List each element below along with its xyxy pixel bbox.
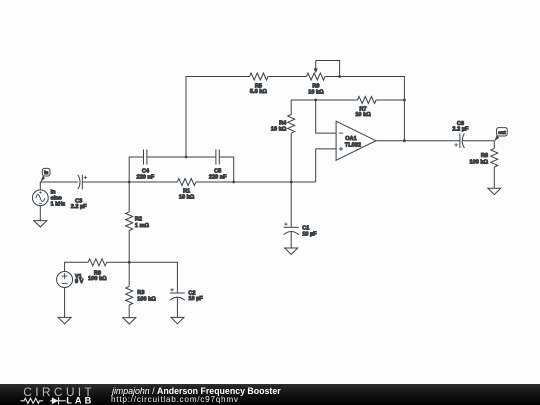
resistor R2 — [126, 182, 150, 262]
resistor R5 — [250, 73, 269, 95]
wire bias node to C2 — [129, 262, 177, 293]
ground (under C1) — [285, 248, 298, 254]
svg-text:LAB: LAB — [66, 396, 94, 405]
svg-text:100 kΩ: 100 kΩ — [137, 296, 156, 302]
wire R5 to R9 — [268, 76, 306, 78]
svg-text:100 kΩ: 100 kΩ — [88, 276, 107, 282]
wire C6 to out node — [462, 140, 494, 142]
svg-text:TL082: TL082 — [345, 142, 361, 148]
op-amp OA1 — [336, 121, 376, 160]
node G junction (output) — [403, 139, 406, 142]
svg-text:R2: R2 — [135, 216, 142, 222]
potentiometer R9 — [306, 61, 341, 96]
svg-text:5.6 kΩ: 5.6 kΩ — [250, 89, 267, 95]
resistor R3 — [126, 262, 157, 317]
resistor R7 — [355, 97, 404, 119]
node in flag — [40, 168, 50, 182]
resistor R1 — [129, 179, 234, 201]
node E junction (inverting input tap) — [314, 99, 317, 102]
wire in to C3 — [40, 181, 78, 183]
voltage source V1 — [57, 262, 89, 317]
capacitor C4 — [137, 150, 155, 181]
svg-text:10 µF: 10 µF — [188, 296, 203, 302]
svg-text:2.2 µF: 2.2 µF — [452, 127, 469, 133]
svg-text:R8: R8 — [481, 153, 488, 159]
node C junction — [232, 181, 235, 184]
ground (under R3) — [123, 318, 136, 324]
wire R9 to right corner, down to output node — [325, 77, 404, 141]
svg-text:9 V: 9 V — [75, 279, 84, 285]
svg-text:OA1: OA1 — [345, 136, 357, 142]
node H junction (bias node) — [128, 261, 131, 264]
capacitor C6 — [452, 121, 469, 148]
capacitor C1 — [284, 222, 317, 248]
capacitor C3 — [71, 175, 88, 211]
svg-text:220 nF: 220 nF — [209, 175, 227, 181]
svg-text:10 kΩ: 10 kΩ — [179, 194, 195, 200]
wire node C to op-amp + branch — [234, 181, 316, 183]
svg-text:220 nF: 220 nF — [137, 175, 155, 181]
wire C3 to node A — [82, 181, 129, 183]
svg-text:1 mΩ: 1 mΩ — [135, 223, 150, 229]
node D junction (rail / R4 / C1) — [290, 181, 293, 184]
node out flag — [494, 128, 507, 142]
ground (under C2) — [171, 317, 184, 323]
svg-text:2.2 µF: 2.2 µF — [71, 204, 88, 210]
wire non-inverting input — [316, 149, 336, 182]
capacitor C5 — [209, 150, 227, 181]
ground (under source) — [34, 221, 47, 227]
wire C5 down to rail node C — [219, 157, 233, 182]
capacitor C2 — [170, 288, 203, 317]
svg-text:R3: R3 — [137, 290, 144, 296]
svg-text:in: in — [44, 170, 48, 176]
resistor R4 — [271, 100, 295, 182]
svg-text:out: out — [498, 130, 506, 135]
wire op-amp output — [376, 140, 460, 142]
svg-text:10 kΩ: 10 kΩ — [271, 126, 287, 132]
voltage source V2 sine input — [32, 182, 65, 221]
wire feedback row: R4 top to R7 — [291, 99, 357, 101]
wire node B up to top rail — [186, 77, 250, 158]
wire node A up to C4 branch — [129, 157, 143, 182]
node F junction (R7 right / vertical) — [403, 99, 406, 102]
resistor R6 — [88, 259, 129, 282]
resistor R8 — [470, 141, 498, 189]
wire C4 to node B — [147, 156, 216, 158]
wire C1 branch — [290, 182, 292, 227]
svg-text:10 kΩ: 10 kΩ — [308, 89, 324, 95]
svg-text:100 kΩ: 100 kΩ — [470, 160, 489, 166]
ground (under V1) — [58, 317, 71, 323]
node A junction — [128, 181, 131, 184]
footer bar — [0, 384, 540, 405]
svg-text:10 µF: 10 µF — [302, 231, 317, 237]
svg-text:1 kHz: 1 kHz — [51, 202, 66, 208]
wire inverting input — [316, 100, 336, 133]
CircuitLab logo — [0, 384, 100, 405]
node B junction — [185, 156, 188, 159]
svg-text:10 kΩ: 10 kΩ — [355, 112, 371, 118]
ground (under R8) — [488, 188, 501, 194]
